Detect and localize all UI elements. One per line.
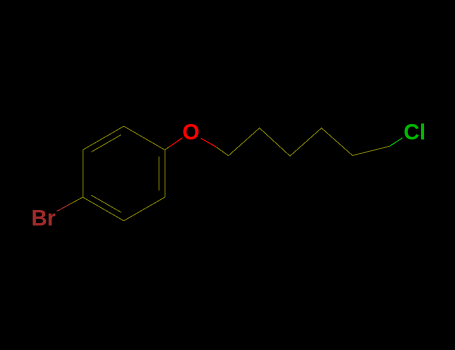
- bond E to Br, carbon half: [70, 197, 83, 204]
- svg-text:Cl: Cl: [404, 120, 426, 145]
- benzene ring edge E-F: [82, 150, 84, 197]
- bond C5 to Cl, chlorine half: [390, 138, 403, 147]
- benzene ring edge A-B: [124, 126, 165, 150]
- bond B to O, carbon half: [165, 147, 169, 150]
- bond O to C1, oxygen half: [201, 138, 216, 147]
- bond O to C1, carbon half: [216, 147, 228, 156]
- benzene ring edge F-A: [83, 126, 124, 150]
- bond C2-C3: [260, 128, 291, 156]
- double bond inner line D-E: [91, 195, 121, 212]
- bond C4-C5: [322, 128, 353, 156]
- svg-text:Br: Br: [31, 206, 56, 231]
- benzene ring edge D-E: [83, 197, 124, 221]
- benzene ring edge B-C: [164, 150, 166, 197]
- bond C3-C4: [290, 128, 322, 156]
- double bond inner line F-A: [91, 135, 121, 152]
- svg-text:O: O: [182, 120, 199, 145]
- benzene ring edge C-D: [124, 197, 165, 221]
- bond C5 to Cl, carbon half: [353, 146, 390, 155]
- bond E to Br, bromine half: [57, 204, 70, 211]
- bond C1-C2: [229, 128, 260, 156]
- bond B to O, oxygen half: [169, 138, 183, 147]
- double bond inner line B-C: [158, 156, 160, 190]
